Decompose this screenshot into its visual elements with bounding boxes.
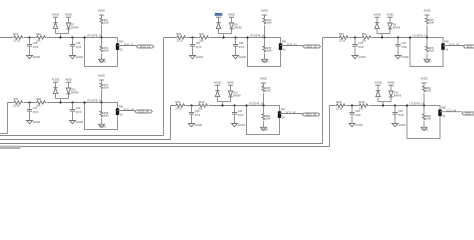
ground AGND: [70, 56, 76, 59]
ground AGND: [233, 56, 239, 59]
svg-text:47pF: 47pF: [401, 46, 407, 49]
diode D10B BAV99: [66, 88, 70, 94]
ferrite bead FB6 30ohm: [116, 108, 119, 115]
ground AGND divider: [424, 59, 430, 62]
svg-text:AVDD: AVDD: [98, 74, 105, 78]
ground AGND: [349, 124, 355, 127]
svg-text:AGND: AGND: [373, 13, 381, 17]
node block4 diode junction: [59, 101, 61, 103]
svg-text:47pF: 47pF: [239, 46, 245, 49]
ground AGND: [232, 124, 238, 127]
svg-text:10M: 10M: [104, 87, 109, 90]
svg-text:47pF: 47pF: [76, 46, 82, 49]
capacitor C44 47pF: [232, 112, 237, 114]
svg-text:AGND: AGND: [33, 56, 40, 59]
op-amp guard box LTC6078_1A: [410, 38, 443, 67]
node block1 diode junction: [59, 36, 61, 38]
port ECG_V6: [462, 112, 474, 115]
wire cap branch at x=192: [191, 106, 193, 113]
wire riser block4 input: [7, 103, 9, 134]
svg-text:47pF: 47pF: [358, 46, 364, 49]
resistor R81 10M: [422, 86, 425, 93]
port ECG_V2: [303, 45, 320, 48]
svg-text:R100: R100: [198, 100, 205, 104]
svg-text:AGND: AGND: [424, 61, 431, 64]
svg-text:47pF: 47pF: [33, 111, 39, 114]
svg-text:10M: 10M: [267, 50, 272, 53]
svg-text:ECG_V2: ECG_V2: [307, 44, 318, 48]
wire bus line1 to block2: [0, 135, 164, 137]
diode D12B BAV99: [389, 91, 393, 97]
svg-text:BAV99: BAV99: [233, 94, 241, 97]
svg-text:AVDD: AVDD: [420, 77, 427, 81]
resistor R101 22.1k: [335, 104, 346, 108]
node block3 j2: [397, 36, 399, 38]
svg-text:R91: R91: [13, 32, 18, 36]
connector sheet stub (grey bar): [0, 146, 21, 149]
svg-text:ECG_V5: ECG_V5: [306, 112, 317, 116]
svg-text:AGND: AGND: [52, 13, 60, 17]
svg-text:AVDD: AVDD: [387, 81, 394, 85]
capacitor C42 47pF: [70, 109, 75, 111]
svg-text:C40: C40: [401, 42, 406, 45]
ground AGND: [392, 124, 398, 127]
node block5 j1: [190, 104, 192, 106]
svg-text:ECG_V3: ECG_V3: [450, 42, 460, 46]
svg-text:AGND: AGND: [261, 129, 268, 132]
ground AGND: [352, 56, 358, 59]
ground AGND: [189, 124, 195, 127]
op-amp guard box LTC6078_1A: [407, 106, 440, 139]
svg-text:ECG_V6: ECG_V6: [465, 111, 474, 115]
capacitor C37 47pF: [190, 44, 195, 46]
wire block5 output: [280, 113, 303, 115]
resistor R80 10M: [262, 114, 265, 121]
resistor R93 22.1k: [176, 36, 187, 40]
svg-text:R95: R95: [339, 32, 344, 36]
wire cap to ground: [394, 114, 396, 123]
op-amp guard box LTC6078_1A: [248, 38, 281, 67]
ground AGND: [27, 121, 33, 124]
svg-text:ECG_V3: ECG_V3: [467, 44, 474, 48]
svg-text:AGND: AGND: [358, 56, 365, 59]
wire cap branch at x=236: [235, 38, 237, 45]
diode D8A: [216, 22, 220, 24]
wire divider lower: [264, 38, 266, 46]
wire cap branch at x=398: [397, 38, 399, 45]
wire divider upper: [426, 25, 428, 37]
resistor R74 10M: [263, 46, 266, 53]
port ECG_V4: [135, 110, 152, 113]
node block4 j1: [28, 101, 30, 103]
resistor R78 10M: [100, 111, 103, 118]
svg-text:BAV99: BAV99: [234, 26, 242, 29]
node block5 box left: [245, 104, 247, 106]
resistor R75 10M: [425, 18, 428, 25]
node block4 box left: [83, 101, 85, 103]
capacitor C43 47pF: [189, 112, 194, 114]
wire cap branch at x=192: [192, 38, 194, 45]
svg-text:10M: 10M: [266, 118, 271, 121]
diode D11A: [215, 90, 219, 92]
svg-text:AVDD: AVDD: [65, 78, 72, 82]
svg-text:10k: 10k: [36, 39, 41, 43]
svg-text:LTC6078_1A: LTC6078_1A: [250, 33, 265, 37]
node block2 j1: [191, 36, 193, 38]
node block6 box left: [406, 104, 408, 106]
svg-text:LTC6078_1A: LTC6078_1A: [87, 98, 102, 102]
capacitor C35 47pF: [27, 44, 32, 46]
diode D10A: [53, 87, 57, 89]
svg-text:10k: 10k: [199, 39, 204, 43]
svg-text:LTC6078_1A: LTC6078_1A: [409, 101, 424, 105]
diode D7A: [53, 22, 57, 24]
diode D7B BAV99: [66, 23, 70, 29]
svg-text:AVDD: AVDD: [98, 9, 105, 13]
svg-text:10k: 10k: [359, 107, 364, 111]
node block3 j1: [354, 36, 356, 38]
resistor R94 10k: [199, 36, 210, 40]
svg-text:AVDD: AVDD: [261, 9, 268, 13]
ferrite bead FB5 30ohm: [441, 43, 444, 50]
ferrite bead FB3 30ohm: [116, 43, 119, 50]
diode D9A: [375, 22, 379, 24]
wire cap branch at x=72: [72, 38, 74, 45]
svg-text:AVDD: AVDD: [423, 9, 430, 13]
wire cap branch at x=72: [72, 103, 74, 110]
svg-text:C44: C44: [238, 110, 243, 113]
port ECG_V3: [463, 45, 474, 48]
ferrite bead FB8 30ohm: [438, 110, 441, 117]
svg-text:47pF: 47pF: [76, 111, 82, 114]
op-amp guard box LTC6078_1A: [247, 106, 280, 135]
svg-text:ECG_V5: ECG_V5: [286, 110, 296, 114]
node block6 divider: [423, 104, 425, 106]
power AGND flag over D2a: [215, 13, 222, 16]
svg-text:AVDD: AVDD: [65, 13, 72, 17]
wire riser block5 input: [170, 106, 172, 140]
svg-text:10k: 10k: [36, 104, 41, 108]
wire divider lower: [101, 38, 103, 46]
resistor R100 10k: [198, 104, 209, 108]
ground AGND divider: [99, 124, 105, 127]
wire block1 main input: [0, 37, 85, 39]
svg-text:BAV99: BAV99: [393, 26, 401, 29]
wire block6 output: [440, 111, 462, 113]
port ECG_V5: [302, 113, 319, 116]
wire divider upper: [101, 25, 103, 37]
svg-text:AGND: AGND: [196, 56, 203, 59]
node block5 j2: [233, 104, 235, 106]
resistor R79 10M: [262, 86, 265, 93]
svg-text:C38: C38: [239, 42, 244, 45]
wire divider upper: [423, 93, 425, 105]
node block2 j2: [234, 36, 236, 38]
op-amp guard box LTC6078_1A: [85, 103, 118, 130]
svg-text:AGND: AGND: [76, 56, 83, 59]
wire divider upper: [264, 25, 266, 37]
wire block3 output: [443, 45, 463, 47]
svg-text:47pF: 47pF: [398, 114, 404, 117]
wire block2 main input: [164, 37, 248, 39]
wire cap branch at x=30: [29, 38, 31, 45]
wire cap to ground: [234, 114, 236, 123]
svg-text:AGND: AGND: [238, 124, 245, 127]
svg-text:10M: 10M: [426, 118, 431, 121]
wire divider upper: [101, 90, 103, 102]
op-amp guard box LTC6078_1A: [85, 38, 118, 67]
svg-text:R98: R98: [36, 97, 41, 101]
wire cap branch at x=234: [234, 106, 236, 113]
wire block5 main input: [171, 105, 247, 107]
capacitor C40 47pF: [395, 44, 400, 46]
svg-text:AGND: AGND: [355, 124, 362, 127]
ferrite bead FB7 30ohm: [278, 111, 281, 118]
wire diode rail: [377, 33, 390, 35]
resistor R91 22.1k: [13, 36, 24, 40]
svg-text:LTC6078_1A: LTC6078_1A: [412, 33, 427, 37]
resistor R82 10M: [422, 114, 425, 121]
node block1 j2: [71, 36, 73, 38]
resistor R72 10M: [100, 46, 103, 53]
ground AGND divider: [262, 59, 268, 62]
svg-text:AGND: AGND: [215, 13, 222, 16]
node block2 divider: [263, 36, 265, 38]
port ECG_V1: [136, 45, 153, 48]
ground AGND: [190, 56, 196, 59]
wire block6 main input: [330, 105, 408, 107]
svg-text:AVDD: AVDD: [228, 13, 235, 17]
node block1 j1: [28, 36, 30, 38]
wire cap branch at x=30: [29, 103, 31, 110]
svg-text:47pF: 47pF: [196, 46, 202, 49]
wire bus line3 to block3: [0, 143, 323, 145]
svg-text:AGND: AGND: [76, 121, 83, 124]
svg-text:LTC6078_1A: LTC6078_1A: [249, 101, 264, 105]
ferrite bead FB4 30ohm: [279, 43, 282, 50]
ground AGND divider: [261, 127, 267, 130]
wire diode rail: [218, 101, 231, 103]
svg-text:10M: 10M: [426, 90, 431, 93]
resistor R98 10k: [36, 101, 47, 105]
capacitor C36 47pF: [70, 44, 75, 46]
capacitor C45 47pF: [349, 112, 354, 114]
svg-text:AVDD: AVDD: [260, 77, 267, 81]
svg-text:ECG_V6: ECG_V6: [447, 109, 457, 113]
wire cap to ground: [235, 46, 237, 55]
svg-text:AGND: AGND: [195, 124, 202, 127]
wire riser block2 input: [163, 38, 165, 136]
wire block1 output: [118, 45, 137, 47]
svg-text:LTC6078_1A: LTC6078_1A: [87, 33, 102, 37]
resistor R96 10k: [361, 36, 372, 40]
wire bus stub to block4: [0, 133, 8, 135]
svg-text:BAV99: BAV99: [394, 94, 402, 97]
svg-text:AGND: AGND: [99, 126, 106, 129]
wire diode rail: [56, 98, 69, 100]
node block1 box left: [83, 36, 85, 38]
svg-text:ECG_V1: ECG_V1: [124, 42, 134, 46]
wire block2 output: [281, 45, 304, 47]
node block5 divider: [262, 104, 264, 106]
svg-text:AGND: AGND: [401, 56, 408, 59]
capacitor C46 47pF: [392, 112, 397, 114]
svg-text:BAV99: BAV99: [71, 26, 79, 29]
wire riser block6 input: [329, 106, 331, 147]
node block3 box left: [409, 36, 411, 38]
wire diode rail: [378, 101, 391, 103]
ground AGND divider: [421, 127, 427, 130]
svg-text:10k: 10k: [362, 39, 367, 43]
svg-text:10M: 10M: [429, 22, 434, 25]
wire divider upper: [263, 93, 265, 105]
ground AGND: [395, 56, 401, 59]
wire cap branch at x=355: [354, 38, 356, 45]
wire divider lower: [263, 106, 265, 114]
svg-text:47pF: 47pF: [355, 114, 361, 117]
svg-text:10M: 10M: [429, 50, 434, 53]
svg-text:10M: 10M: [104, 115, 109, 118]
svg-text:AGND: AGND: [214, 81, 222, 85]
wire cap branch at x=395: [394, 106, 396, 113]
resistor R76 10M: [425, 46, 428, 53]
wire diode rail: [56, 33, 69, 35]
svg-text:R101: R101: [336, 100, 343, 104]
wire cap to ground: [191, 114, 193, 123]
wire cap to ground: [192, 46, 194, 55]
svg-text:C36: C36: [76, 42, 81, 45]
wire cap to ground: [72, 46, 74, 55]
wire block4 output: [118, 110, 135, 112]
svg-text:R92: R92: [36, 32, 41, 36]
svg-text:R102: R102: [359, 100, 366, 104]
wire divider lower: [101, 103, 103, 111]
resistor R99 22.1k: [175, 104, 186, 108]
svg-text:AGND: AGND: [239, 56, 246, 59]
wire cap to ground: [29, 111, 31, 120]
wire cap to ground: [354, 46, 356, 55]
wire cap to ground: [29, 46, 31, 55]
svg-text:10M: 10M: [266, 90, 271, 93]
node block6 j2: [394, 104, 396, 106]
wire diode rail: [219, 33, 232, 35]
svg-text:ECG_V1: ECG_V1: [140, 44, 151, 48]
svg-text:AGND: AGND: [33, 121, 40, 124]
svg-text:22.1k: 22.1k: [336, 107, 343, 111]
svg-text:22.1k: 22.1k: [13, 39, 20, 43]
ground AGND divider: [99, 59, 105, 62]
svg-text:ECG_V4: ECG_V4: [124, 107, 134, 111]
node block6 j1: [351, 104, 353, 106]
wire cap to ground: [351, 114, 353, 123]
ground AGND: [70, 121, 76, 124]
diode D12A: [376, 90, 380, 92]
node block3 divider: [426, 36, 428, 38]
ground AGND: [27, 56, 33, 59]
svg-text:AGND: AGND: [52, 78, 60, 82]
wire riser block3 input: [322, 38, 324, 144]
svg-text:47pF: 47pF: [195, 114, 201, 117]
capacitor C41 47pF: [27, 109, 32, 111]
svg-text:22.1k: 22.1k: [176, 39, 183, 43]
svg-text:R97: R97: [13, 97, 18, 101]
wire block4 main input: [8, 102, 85, 104]
svg-text:47pF: 47pF: [238, 114, 244, 117]
diode D9B BAV99: [388, 23, 392, 29]
resistor R95 22.1k: [338, 36, 349, 40]
wire divider lower: [423, 106, 425, 114]
svg-text:R94: R94: [199, 32, 204, 36]
resistor R102 10k: [358, 104, 369, 108]
resistor R71 10M: [100, 18, 103, 25]
svg-text:10M: 10M: [267, 22, 272, 25]
svg-text:AGND: AGND: [374, 81, 382, 85]
wire cap to ground: [397, 46, 399, 55]
resistor R77 10M: [100, 83, 103, 90]
capacitor C38 47pF: [233, 44, 238, 46]
node block1 divider: [100, 36, 102, 38]
svg-text:BAV99: BAV99: [71, 91, 79, 94]
svg-text:R99: R99: [175, 100, 180, 104]
wire cap branch at x=352: [351, 106, 353, 113]
wire bus line2 to block5: [0, 139, 171, 141]
svg-text:22.1k: 22.1k: [175, 107, 182, 111]
node block6 diode junction: [382, 104, 384, 106]
resistor R73 10M: [263, 18, 266, 25]
node block4 divider: [100, 101, 102, 103]
svg-text:AGND: AGND: [99, 61, 106, 64]
svg-text:AVDD: AVDD: [386, 13, 393, 17]
svg-text:R93: R93: [176, 32, 181, 36]
svg-text:R96: R96: [362, 32, 367, 36]
svg-text:AGND: AGND: [262, 61, 269, 64]
svg-text:10M: 10M: [104, 50, 109, 53]
node block5 diode junction: [221, 104, 223, 106]
svg-text:ECG_V2: ECG_V2: [287, 42, 297, 46]
wire block3 main input: [323, 37, 411, 39]
wire cap to ground: [72, 111, 74, 120]
node block3 diode junction: [381, 36, 383, 38]
resistor R92 10k: [36, 36, 47, 40]
svg-text:C46: C46: [398, 110, 403, 113]
svg-text:AGND: AGND: [421, 129, 428, 132]
capacitor C39 47pF: [352, 44, 357, 46]
svg-text:AVDD: AVDD: [227, 81, 234, 85]
svg-text:10k: 10k: [198, 107, 203, 111]
svg-text:C42: C42: [76, 107, 81, 110]
resistor R97 22.1k: [13, 101, 24, 105]
diode D11B BAV99: [228, 91, 232, 97]
svg-text:AGND: AGND: [398, 124, 405, 127]
wire bus line4 to block6: [0, 146, 330, 148]
svg-text:10M: 10M: [104, 22, 109, 25]
svg-text:22.1k: 22.1k: [339, 39, 346, 43]
svg-text:22.1k: 22.1k: [13, 104, 20, 108]
wire divider lower: [426, 38, 428, 46]
node block4 j2: [71, 101, 73, 103]
node block2 diode junction: [222, 36, 224, 38]
svg-text:ECG_V4: ECG_V4: [138, 109, 149, 113]
diode D8B BAV99: [229, 23, 233, 29]
node block2 box left: [246, 36, 248, 38]
svg-text:47pF: 47pF: [33, 46, 39, 49]
